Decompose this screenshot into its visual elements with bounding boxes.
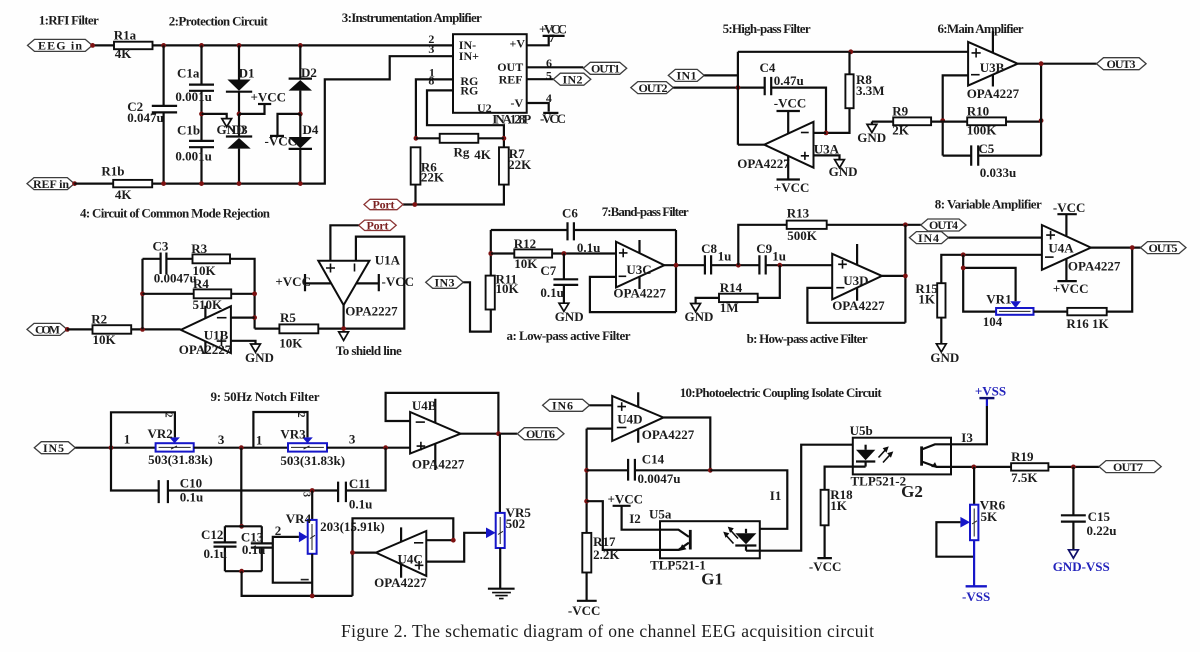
svg-text:-VCC: -VCC [1053, 200, 1086, 215]
wire VR2 to VR3 [194, 447, 288, 449]
ground GND (R15) [930, 344, 959, 365]
resistor R9 [872, 104, 967, 138]
svg-text:Port: Port [373, 198, 395, 212]
wire EEG in to R1a [92, 44, 114, 46]
power -VCC (protection) [265, 114, 301, 149]
power -VSS [962, 586, 990, 604]
wire U3B minus input [943, 75, 968, 155]
svg-text:OUT7: OUT7 [1113, 460, 1143, 474]
svg-text:IN4: IN4 [918, 231, 939, 245]
wire VR4 bottom lead [311, 554, 313, 596]
resistor R5 [255, 310, 344, 350]
svg-text:U4C: U4C [398, 552, 423, 567]
svg-text:0.1u: 0.1u [540, 285, 563, 300]
node VR4 top [310, 488, 315, 493]
node bottom rail junctions [161, 181, 166, 186]
connector COM [27, 323, 67, 337]
node C1a C1b midpoint [199, 112, 204, 117]
node notch center [239, 445, 244, 450]
power +VCC (U2) [539, 21, 567, 36]
transistor U5b phototransistor [922, 444, 951, 467]
ground GND (R14) [685, 304, 714, 324]
svg-text:104: 104 [983, 314, 1003, 329]
resistor R15 [915, 281, 945, 318]
svg-text:10K: 10K [279, 335, 303, 350]
svg-text:-V: -V [511, 96, 524, 110]
wire C10 to C11 [168, 489, 337, 491]
svg-text:U2: U2 [477, 101, 492, 115]
ground GND (C7) [555, 303, 584, 324]
resistor R11 [486, 271, 520, 309]
capacitor C2 [127, 45, 177, 183]
svg-text:1K: 1K [830, 498, 848, 513]
connector OUT7 [1099, 460, 1161, 474]
potentiometer VR6 [960, 498, 1005, 541]
svg-text:R1b: R1b [101, 163, 124, 178]
wire U5b collector to +VSS [951, 406, 987, 444]
svg-text:GND: GND [245, 350, 274, 365]
node R8 top [848, 49, 853, 54]
op-amp U4A [1042, 225, 1121, 274]
svg-text:TLP521-1: TLP521-1 [650, 558, 706, 573]
node R12 left junction [488, 251, 493, 256]
resistor R2 [91, 311, 131, 347]
svg-text:C3: C3 [153, 239, 169, 254]
wire R7 bottom rail [403, 185, 504, 205]
wire top rail R1a to U2 IN- [153, 44, 454, 46]
wire VR6 wiper loop [936, 522, 974, 557]
wire U1B plus input to GND [231, 341, 256, 344]
svg-text:I1: I1 [770, 488, 782, 503]
svg-text:VR4: VR4 [286, 511, 312, 526]
svg-text:1M: 1M [720, 300, 739, 315]
wire VR6 bottom lead to -VSS [973, 540, 975, 586]
diode D3 [226, 114, 252, 184]
svg-text:b: How-pass active Filter: b: How-pass active Filter [747, 331, 868, 346]
svg-text:C1b: C1b [177, 122, 200, 137]
resistor R13 [787, 205, 921, 242]
svg-text:C8: C8 [701, 241, 717, 256]
ground to shield [336, 332, 402, 358]
wire U1A output [343, 305, 345, 329]
svg-text:1u: 1u [772, 248, 786, 263]
svg-text:OUT6: OUT6 [526, 427, 555, 441]
wire U3C output vertical [675, 230, 677, 312]
svg-text:IN5: IN5 [43, 441, 64, 455]
svg-text:R3: R3 [191, 241, 207, 256]
svg-text:IN1: IN1 [677, 69, 697, 83]
op-amp U3B [967, 31, 1020, 101]
svg-text:IN3: IN3 [435, 276, 455, 290]
svg-text:U4B: U4B [412, 398, 437, 413]
svg-text:OPA4227: OPA4227 [737, 156, 790, 171]
resistor R14 [696, 265, 780, 315]
node REF in tip [72, 181, 77, 186]
svg-text:IN2: IN2 [563, 72, 583, 86]
node Rg left [414, 136, 419, 141]
svg-text:10K: 10K [496, 281, 520, 296]
svg-text:4K: 4K [474, 147, 492, 162]
wire VR2 bypass loop [111, 412, 175, 447]
svg-text:To shield line: To shield line [336, 343, 402, 358]
resistor R18 [821, 487, 854, 525]
node R4 left [140, 291, 145, 296]
wire U2 REF pin [527, 78, 554, 80]
wire U1B minus input [231, 317, 255, 319]
wire U4A output [1091, 247, 1141, 249]
svg-text:OUT5: OUT5 [1149, 241, 1178, 255]
svg-text:Figure 2. The schematic diagr: Figure 2. The schematic diagram of one c… [341, 621, 874, 641]
svg-text:OPA4227: OPA4227 [967, 86, 1020, 101]
wire VR5 top lead [499, 434, 501, 513]
svg-text:EEG in: EEG in [38, 39, 82, 53]
wire midpoint to GND arrow [202, 114, 227, 119]
potentiometer VR5 [486, 505, 531, 548]
svg-text:OPA2227: OPA2227 [345, 303, 398, 318]
svg-text:C9: C9 [756, 241, 772, 256]
node U1B minus junction [252, 315, 257, 320]
svg-text:C7: C7 [540, 263, 556, 278]
node R2 feedback junction [140, 327, 145, 332]
svg-text:VR1: VR1 [986, 292, 1011, 307]
wire U3D minus feedback [807, 288, 905, 323]
wire U4D minus input [587, 428, 613, 430]
svg-text:2: 2 [163, 413, 174, 418]
resistor R3 [191, 241, 230, 278]
svg-text:1: 1 [124, 432, 131, 447]
svg-text:502: 502 [506, 516, 525, 531]
wire U5b LED cathode to R18 [825, 467, 866, 490]
svg-text:2K: 2K [892, 123, 910, 138]
svg-text:OPA4227: OPA4227 [642, 427, 695, 442]
power +VCC (protection) [239, 90, 286, 114]
diode D2 [289, 45, 317, 114]
power +VCC (U4A) [1053, 259, 1089, 296]
node C12 C13 bottom [239, 569, 244, 574]
svg-text:U4D: U4D [617, 411, 642, 426]
svg-text:U3C: U3C [626, 262, 651, 277]
svg-text:IN6: IN6 [552, 399, 573, 413]
connector OUT2 [631, 81, 674, 95]
svg-text:2: 2 [295, 413, 306, 418]
svg-text:8: 8 [428, 74, 434, 88]
svg-text:5:High-pass Filter: 5:High-pass Filter [723, 21, 811, 36]
node U3C output [674, 263, 679, 268]
connector IN6 [543, 399, 590, 413]
resistor R1b [101, 163, 152, 201]
svg-text:U3D: U3D [843, 273, 868, 288]
wire R13 branch [738, 225, 786, 265]
connector REF in [27, 177, 74, 191]
node VR1 branch corner [961, 266, 966, 271]
svg-text:R5: R5 [280, 310, 296, 325]
wire R6 bottom [414, 185, 416, 205]
op-amp U4B [410, 398, 465, 472]
node R10 right [1039, 118, 1044, 123]
op-amp U3A [737, 122, 839, 171]
wire C10 branch left [111, 448, 158, 491]
svg-text:R16 1K: R16 1K [1066, 316, 1109, 331]
node Rg right [502, 136, 507, 141]
svg-text:C12: C12 [201, 527, 223, 542]
connector EEG in [28, 39, 93, 53]
svg-text:10K: 10K [514, 256, 538, 271]
wire VR3 bypass loop [253, 412, 307, 448]
svg-text:C11: C11 [349, 476, 371, 491]
svg-text:U1B: U1B [204, 328, 229, 343]
connector IN1 [668, 69, 704, 83]
power +VCC (U1A) [275, 274, 331, 291]
node D1 D3 junction [237, 112, 242, 117]
optocoupler U5a G1 box [649, 506, 760, 588]
wire U3A plus to GND [814, 155, 840, 159]
svg-text:+VCC: +VCC [774, 180, 810, 195]
wire U2 +V pin [527, 37, 549, 45]
wire highpass left vertical [737, 52, 739, 145]
svg-text:6:Main Amplifier: 6:Main Amplifier [938, 21, 1024, 36]
svg-text:0.047u: 0.047u [127, 110, 163, 125]
svg-text:9: 50Hz Notch Filter: 9: 50Hz Notch Filter [211, 389, 320, 404]
svg-text:4K: 4K [115, 187, 132, 202]
svg-text:5K: 5K [981, 509, 999, 524]
wire C12 C13 bottom rail [225, 570, 262, 572]
svg-text:I2: I2 [629, 511, 641, 526]
svg-text:VR2: VR2 [148, 426, 173, 441]
wire IN3 to R11 bottom [463, 282, 491, 331]
svg-text:1K: 1K [918, 292, 936, 307]
wire U3C output [664, 264, 704, 266]
svg-text:TLP521-2: TLP521-2 [851, 473, 907, 488]
svg-text:GND-VSS: GND-VSS [1053, 559, 1110, 574]
svg-text:0.47u: 0.47u [774, 73, 804, 88]
resistor R17 [582, 533, 620, 573]
svg-text:+V: +V [510, 37, 526, 51]
wire U4C minus feedback [353, 518, 454, 552]
node R13 right [903, 222, 908, 227]
wire VR4 top lead [311, 491, 313, 520]
svg-text:22K: 22K [508, 157, 532, 172]
svg-text:22K: 22K [421, 170, 445, 185]
power -VCC (U2) [540, 111, 566, 126]
ground GND (U3A) [829, 160, 858, 179]
node COM tip [65, 327, 70, 332]
svg-text:OPA2227: OPA2227 [179, 342, 232, 357]
wire Port to U1A plus [330, 225, 358, 260]
wire U4D output loop [663, 418, 710, 471]
svg-text:8: Variable Amplifier: 8: Variable Amplifier [935, 197, 1042, 212]
wire VR6 top lead [973, 467, 975, 505]
svg-text:1: 1 [256, 433, 263, 448]
wire VR4 wiper loop [273, 537, 312, 583]
capacitor C9 [756, 241, 832, 274]
svg-text:-VCC: -VCC [265, 134, 298, 149]
svg-text:0.001u: 0.001u [175, 89, 211, 104]
connector IN4 [909, 231, 948, 245]
wire G1 LED to G2 LED [746, 445, 866, 551]
capacitor C1a [175, 45, 214, 114]
svg-text:-VCC: -VCC [540, 111, 566, 126]
node U3A minus junction [824, 131, 829, 136]
optocoupler U5b G2 box [850, 423, 951, 501]
svg-text:C1a: C1a [177, 66, 200, 81]
resistor R16 [1066, 308, 1109, 331]
svg-text:OPA4227: OPA4227 [1068, 259, 1121, 274]
wire U4A minus input [941, 255, 1042, 283]
svg-text:-VCC: -VCC [774, 96, 807, 111]
capacitor C11 [338, 448, 386, 512]
node C12 C13 top [239, 524, 244, 529]
resistor R10 [967, 104, 1041, 138]
svg-text:Rg: Rg [454, 145, 470, 160]
svg-text:RG: RG [460, 84, 478, 98]
node C7 top [562, 251, 567, 256]
ground GND (protection) [217, 119, 246, 138]
svg-text:5: 5 [546, 69, 552, 83]
svg-text:REF in: REF in [33, 177, 69, 191]
svg-text:IN+: IN+ [459, 49, 479, 63]
connector IN3 [426, 276, 464, 290]
node VR4 bottom [310, 594, 315, 599]
svg-text:4: Circuit of Common Mode Reje: 4: Circuit of Common Mode Rejection [80, 205, 271, 220]
diode U5b LED [856, 445, 893, 467]
wire U3B output [1018, 63, 1097, 65]
wire U3D output vertical [904, 225, 906, 323]
wire bottom rail to U2 IN+ [152, 56, 453, 183]
wire R2 to U1B output [131, 328, 181, 330]
ground GND (R9) [857, 122, 886, 145]
wire notch center vertical [240, 448, 242, 527]
svg-text:0.1u: 0.1u [204, 546, 227, 561]
op-amp U3D [832, 244, 885, 313]
op-amp U2 INA128P box [453, 34, 531, 126]
capacitor C8 [701, 241, 759, 274]
wire U3A output [738, 144, 764, 146]
svg-text:-VCC: -VCC [809, 559, 842, 574]
node IN5 junction [109, 445, 114, 450]
ground GND (U1B) [245, 344, 274, 365]
op-amp U4D [612, 392, 695, 443]
wire U3B output vertical [1040, 64, 1042, 156]
power -VCC (R17) [568, 573, 601, 618]
svg-text:510K: 510K [193, 297, 224, 312]
resistor R12 [491, 236, 616, 271]
capacitor C4 [760, 60, 827, 133]
svg-text:0.0047u: 0.0047u [154, 270, 197, 285]
svg-text:U5b: U5b [850, 423, 873, 438]
svg-text:U1A: U1A [375, 252, 401, 267]
resistor R6 [411, 147, 445, 184]
svg-text:-VSS: -VSS [962, 589, 990, 604]
svg-text:OPA4227: OPA4227 [613, 285, 666, 300]
svg-text:OPA4227: OPA4227 [412, 457, 465, 472]
svg-text:+VCC: +VCC [251, 90, 287, 105]
node U4A output [1130, 245, 1135, 250]
node VR6 top [971, 465, 976, 470]
diode D1 [226, 45, 255, 114]
wire R15 bottom [940, 318, 942, 344]
svg-text:D1: D1 [239, 66, 255, 81]
svg-text:0.22u: 0.22u [1087, 523, 1117, 538]
svg-text:7.5K: 7.5K [1011, 470, 1038, 485]
diode D4 [289, 114, 319, 184]
svg-text:0.001u: 0.001u [175, 149, 211, 164]
svg-text:500K: 500K [787, 228, 818, 243]
wire IN6 to U4D plus [590, 404, 613, 406]
svg-text:OPA4227: OPA4227 [832, 298, 885, 313]
svg-text:U3A: U3A [814, 141, 840, 156]
wire R3 to right vertical [230, 259, 255, 329]
diode U5a LED [723, 527, 756, 551]
ground GND-VSS [1053, 550, 1110, 574]
svg-text:R13: R13 [787, 205, 810, 220]
svg-text:3:Instrumentation Amplifier: 3:Instrumentation Amplifier [342, 10, 482, 25]
svg-text:503(31.83k): 503(31.83k) [148, 452, 213, 467]
svg-text:VR3: VR3 [280, 427, 306, 442]
wire left vertical to R17 [585, 429, 587, 533]
connector Port (U1A) [359, 218, 397, 232]
wire U3C minus feedback [590, 277, 676, 312]
wire I1 branch to G1 LED [710, 470, 787, 529]
potentiometer VR3 [280, 427, 345, 468]
capacitor C14 [587, 452, 711, 487]
svg-text:OUT3: OUT3 [1107, 57, 1136, 71]
svg-text:+VCC: +VCC [275, 274, 311, 289]
power -VCC (R18) [809, 525, 842, 574]
capacitor C12 [201, 526, 237, 571]
wire R11 top to C6 corner [490, 230, 492, 276]
svg-text:Port: Port [367, 218, 389, 232]
capacitor C1b [175, 114, 214, 184]
wire R16 to output [1107, 248, 1133, 312]
power +VCC (G1) [608, 492, 661, 530]
capacitor C5 [943, 141, 1041, 180]
wire U4B feedback loop [386, 393, 499, 434]
svg-text:100K: 100K [967, 123, 998, 138]
wire U3D output [882, 275, 906, 277]
power -VCC (U3A) [774, 96, 807, 134]
svg-text:R14: R14 [720, 280, 743, 295]
wire IN4 to U4A plus [949, 237, 1042, 239]
transistor U5a phototransistor [660, 530, 690, 551]
node D2 D4 junction [298, 112, 303, 117]
resistor R19 [1011, 449, 1048, 485]
wire U2 OUT pin [527, 66, 584, 68]
capacitor C3 [143, 239, 197, 286]
wire VR5 wiper to U4C plus [426, 533, 486, 562]
node OUT2 junction [736, 85, 741, 90]
svg-text:7:Band-pass Filter: 7:Band-pass Filter [602, 204, 689, 219]
svg-text:COM: COM [35, 323, 60, 337]
svg-text:D2: D2 [301, 65, 317, 80]
wire OUT2 to C4 [673, 86, 764, 88]
svg-text:0.1u: 0.1u [180, 490, 203, 505]
wire U2 RG pin1 [416, 79, 453, 138]
wire highpass top rail [738, 51, 968, 53]
svg-text:GND: GND [829, 164, 858, 179]
node U4B rail junction [383, 445, 388, 450]
svg-text:+VCC: +VCC [1053, 281, 1089, 296]
capacitor C13 [241, 526, 273, 571]
svg-text:U3B: U3B [980, 60, 1005, 75]
connector Port (upper) [364, 198, 403, 212]
node C15 top [1071, 465, 1076, 470]
svg-text:3: 3 [349, 432, 356, 447]
wire VR1 to R16 [1034, 311, 1068, 313]
node U4C minus corner [451, 538, 456, 543]
wire feedback vertical left [141, 259, 143, 330]
op-amp U4C [374, 527, 427, 590]
power -VCC (U1A) [356, 274, 414, 291]
